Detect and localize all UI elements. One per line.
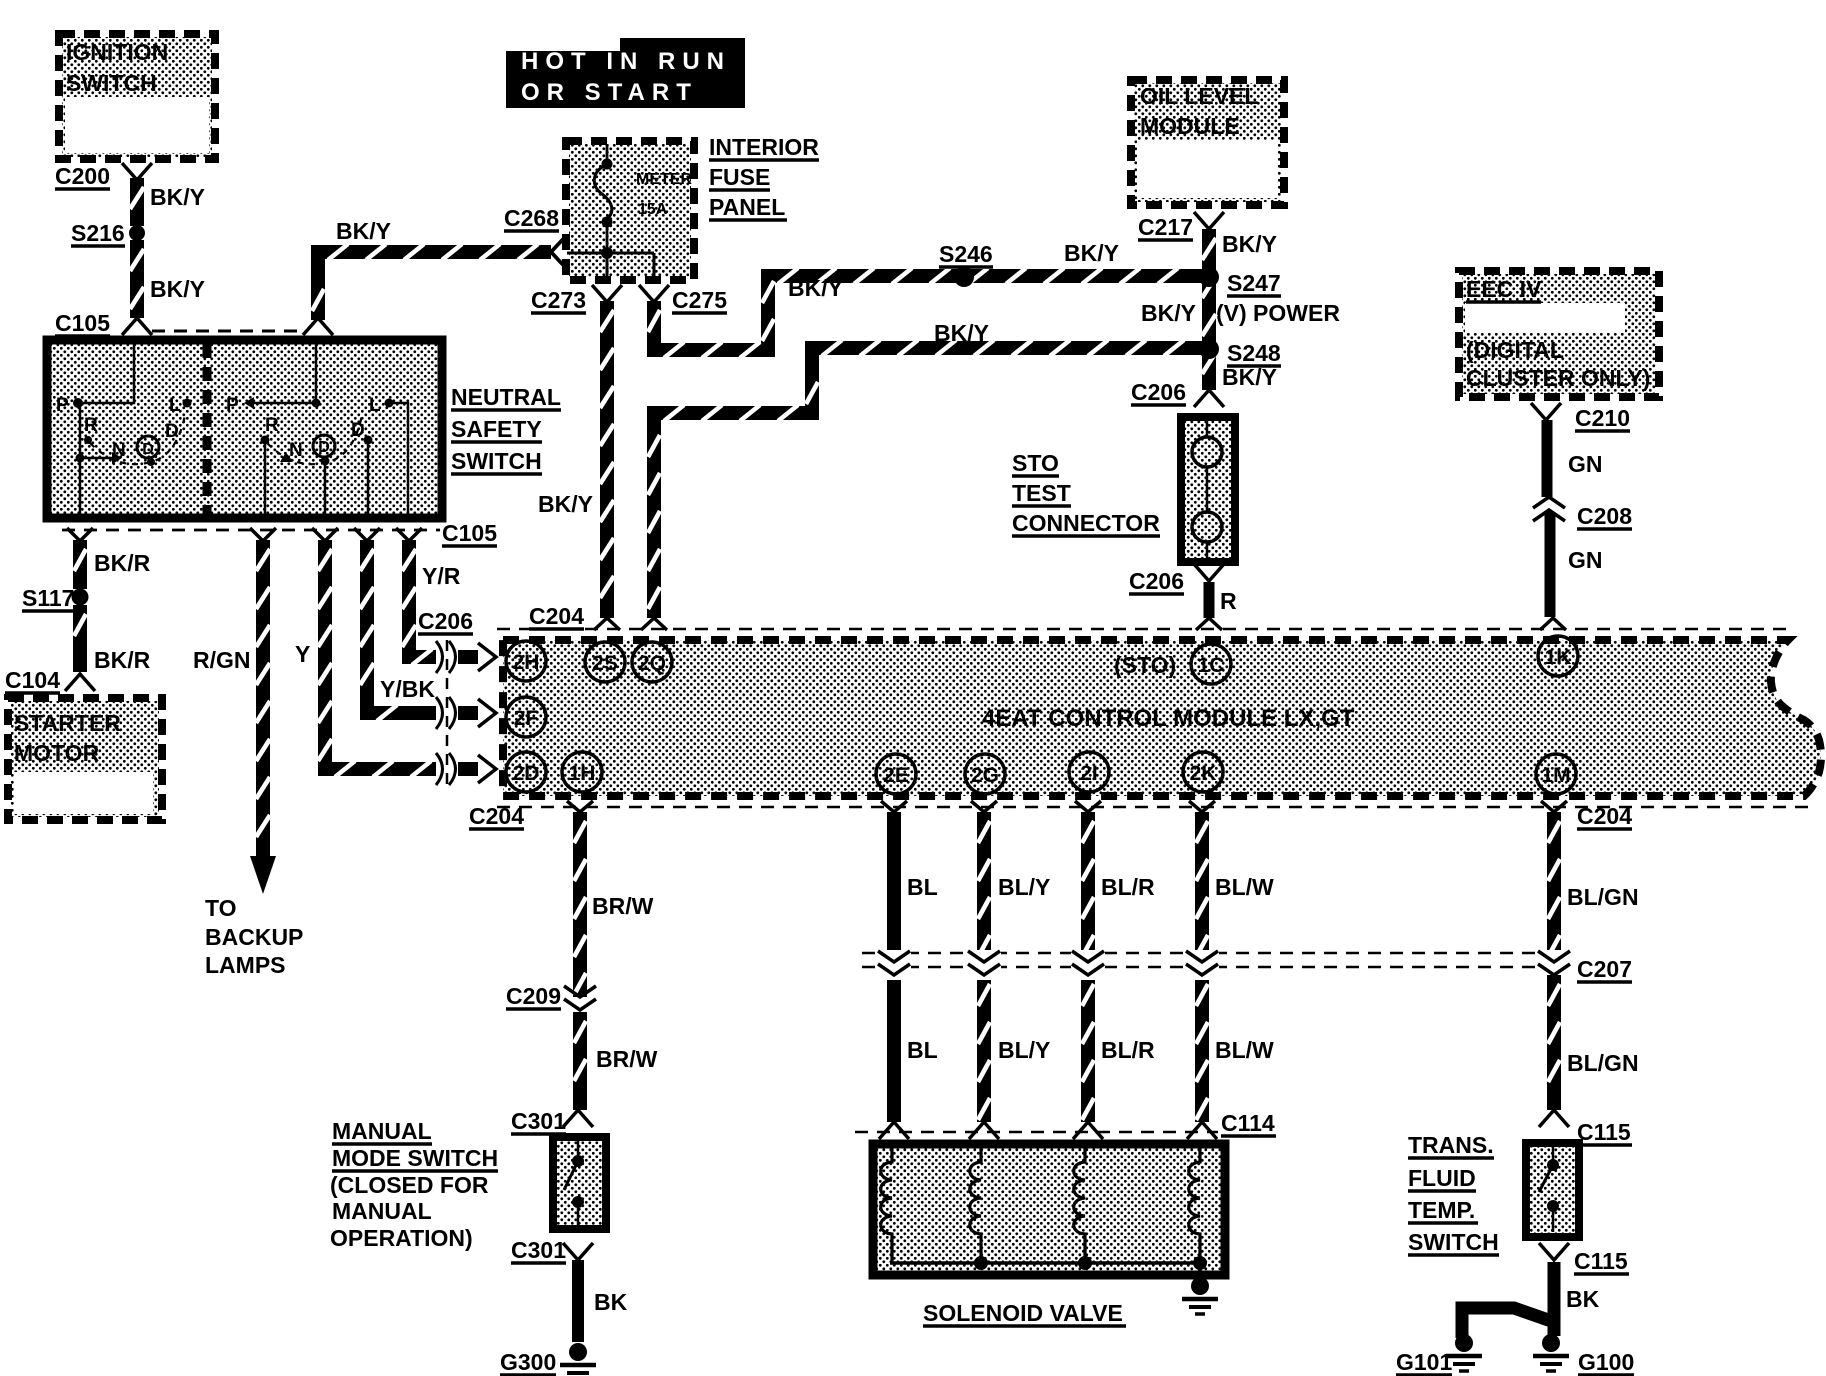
label BK/R (94, 647, 151, 673)
svg-text:BL/R: BL/R (1101, 874, 1155, 900)
neutral safety switch left contacts (56, 344, 192, 518)
module top chevron 1C (1196, 618, 1222, 630)
svg-text:MODE SWITCH: MODE SWITCH (332, 1145, 498, 1171)
splice S117 (22, 585, 89, 611)
ground G101 (1396, 1334, 1482, 1375)
connector C301 chevron (bottom) (511, 1237, 593, 1263)
svg-text:BL/W: BL/W (1215, 1037, 1274, 1063)
svg-text:CLUSTER ONLY): CLUSTER ONLY) (1466, 365, 1650, 391)
svg-text:SWITCH: SWITCH (66, 70, 157, 96)
connector C273 chevron (531, 285, 622, 313)
svg-text:C301: C301 (511, 1108, 566, 1134)
svg-text:OR START: OR START (521, 79, 698, 106)
connector C114 chevrons (879, 1122, 1217, 1139)
wire BL module 2E to solenoid (887, 812, 901, 1122)
svg-text:D: D (165, 421, 179, 442)
svg-text:C105: C105 (55, 310, 110, 336)
svg-text:1M: 1M (1541, 764, 1570, 787)
label BK/Y (150, 184, 205, 210)
svg-text:P: P (56, 395, 69, 416)
svg-text:S117: S117 (22, 585, 74, 611)
wire BK C301 to G300 (572, 1260, 584, 1342)
label BK/Y (934, 320, 989, 346)
wire BL/GN module 1M to C207 (1548, 812, 1560, 962)
wire BK/Y ignition to S216 (130, 178, 144, 226)
connector C206 chevron (top) (1131, 379, 1224, 407)
wire Y C105 to module 2D (318, 540, 478, 777)
svg-text:BL: BL (907, 874, 938, 900)
svg-text:C105: C105 (442, 520, 497, 546)
connector C115 chevron (bottom) (1539, 1243, 1629, 1274)
connector C210 chevron (1531, 403, 1630, 431)
svg-text:(CLOSED FOR: (CLOSED FOR (330, 1172, 489, 1198)
manual mode switch box (553, 1137, 606, 1229)
svg-text:Y/BK: Y/BK (380, 676, 435, 702)
neutral safety switch right contacts (226, 344, 408, 518)
svg-text:G101: G101 (1396, 1349, 1452, 1375)
wire BL/Y module 2G to solenoid (978, 812, 990, 1122)
svg-text:L: L (169, 395, 181, 416)
module bottom chevron 1M (1541, 801, 1567, 812)
wire BL/GN C207 to C115 (1548, 975, 1560, 1110)
svg-text:BK/Y: BK/Y (934, 320, 989, 346)
module left funnels (478, 643, 496, 783)
svg-text:SOLENOID VALVE: SOLENOID VALVE (923, 1300, 1123, 1326)
EEC IV digital cluster box (1459, 271, 1659, 397)
svg-text:C115: C115 (1574, 1248, 1628, 1274)
wire BL/W module 2K to solenoid (1196, 812, 1208, 1122)
neutral safety switch labels (451, 384, 561, 474)
svg-text:BR/W: BR/W (596, 1046, 658, 1072)
interior fuse panel box (566, 141, 694, 280)
label BL (907, 874, 938, 900)
connector C204 label (bottom left) (469, 803, 524, 829)
svg-text:C204: C204 (469, 803, 524, 829)
solenoid valve box (873, 1144, 1225, 1275)
svg-text:1K: 1K (1545, 646, 1572, 669)
svg-text:BK: BK (594, 1289, 628, 1315)
connector C200 chevron (122, 163, 152, 180)
solenoid coil 2 (970, 1146, 981, 1263)
splice S246 (939, 241, 993, 287)
connector C105 chevron (fuse wire) (303, 318, 333, 335)
svg-text:2S: 2S (592, 652, 618, 675)
svg-text:C207: C207 (1577, 956, 1632, 982)
svg-text:C204: C204 (529, 603, 584, 629)
svg-text:C273: C273 (531, 287, 586, 313)
svg-text:TEMP.: TEMP. (1408, 1197, 1475, 1223)
svg-text:1H: 1H (569, 762, 596, 785)
svg-text:SWITCH: SWITCH (451, 448, 542, 474)
connector C217 chevron (1138, 212, 1224, 240)
4EAT control module box (497, 629, 1821, 807)
wire BR/W C209 to C301 (574, 1012, 586, 1110)
svg-text:GN: GN (1568, 547, 1603, 573)
svg-text:C268: C268 (504, 205, 559, 231)
svg-text:MANUAL: MANUAL (332, 1118, 432, 1144)
connector C207 chevrons (1537, 950, 1632, 982)
svg-text:2D: 2D (513, 762, 540, 785)
wire BK/R S117 to C104 (74, 605, 86, 672)
connector C268 label (504, 205, 559, 231)
svg-text:C209: C209 (506, 983, 561, 1009)
module pin 1H (562, 752, 602, 792)
svg-text:1C: 1C (1198, 654, 1225, 677)
splice S248 (1199, 339, 1281, 366)
svg-text:BL/R: BL/R (1101, 1037, 1155, 1063)
connector C206 breaks (436, 640, 456, 792)
wire BL/R module 2I to solenoid (1082, 812, 1094, 1122)
label Y/R (422, 563, 461, 589)
connector C115 chevron (top) (1539, 1110, 1632, 1145)
svg-text:INTERIOR: INTERIOR (709, 134, 819, 160)
svg-text:BK/Y: BK/Y (150, 276, 205, 302)
svg-text:2K: 2K (1190, 762, 1217, 785)
svg-text:SWITCH: SWITCH (1408, 1229, 1499, 1255)
label BL/W (1215, 874, 1274, 900)
label BK/Y (1222, 231, 1277, 257)
svg-text:D: D (318, 439, 330, 456)
ignition switch box (59, 34, 215, 159)
svg-text:Y: Y (295, 641, 310, 667)
label BK/Y (788, 275, 843, 301)
splice S247 (1199, 267, 1281, 296)
module pin 2I (1069, 752, 1109, 792)
label BK/R (94, 550, 151, 576)
module top chevron 1K (1540, 618, 1566, 630)
inline connector chevrons BL (877, 950, 911, 980)
STO test connector labels (1012, 450, 1160, 536)
connector C208 double chevron (1533, 497, 1632, 529)
svg-text:SAFETY: SAFETY (451, 416, 542, 442)
label Y/BK (380, 676, 435, 702)
svg-text:BL/GN: BL/GN (1567, 884, 1639, 910)
module top chevron 2S (594, 618, 620, 630)
svg-text:BK/Y: BK/Y (1222, 364, 1277, 390)
label BK/Y (150, 276, 205, 302)
svg-text:C104: C104 (5, 667, 60, 693)
module pin 2G (965, 754, 1005, 794)
neutral safety switch box (47, 340, 442, 518)
svg-text:BL/W: BL/W (1215, 874, 1274, 900)
connector C301 chevron (top) (511, 1108, 593, 1134)
svg-text:C206: C206 (1131, 379, 1186, 405)
svg-text:R/GN: R/GN (193, 647, 251, 673)
oil level module box (1131, 80, 1284, 205)
splice S216 (71, 220, 145, 246)
solenoid coil 1 (881, 1146, 892, 1263)
svg-text:BR/W: BR/W (592, 893, 654, 919)
wire BK/Y C275 to S246/S247 run (648, 268, 1203, 358)
connector C105 chevrons below switch (67, 528, 422, 541)
wire BK/Y module 2Q to S248 run (648, 340, 1203, 618)
connector C209 double chevron (506, 983, 596, 1010)
starter motor box (8, 698, 162, 820)
label BL/Y (998, 1037, 1050, 1063)
svg-text:15A: 15A (638, 201, 668, 218)
wire R C206 to module 1C (1204, 582, 1215, 618)
wire BK/Y C273 to module 2S (600, 301, 614, 618)
module pin 2K (1183, 752, 1223, 792)
svg-text:R: R (1220, 588, 1237, 614)
solenoid ground (1182, 1277, 1218, 1314)
solenoid common bus (890, 1256, 1207, 1283)
wire GN C210 to C208 (1542, 420, 1553, 497)
svg-text:BL/Y: BL/Y (998, 1037, 1050, 1063)
svg-text:BL: BL (907, 1037, 938, 1063)
svg-text:BK: BK (1566, 1286, 1600, 1312)
label BL/Y (998, 874, 1050, 900)
connector C104 chevron (5, 667, 95, 693)
connector C105 dashed line (152, 330, 303, 333)
connector C200 label (55, 163, 110, 189)
wire BK/Y C217 to C206 (1202, 229, 1216, 390)
svg-text:2H: 2H (513, 651, 540, 674)
STO test connector box (1181, 417, 1235, 562)
svg-text:BK/R: BK/R (94, 550, 151, 576)
arrow to backup lamps (250, 856, 276, 894)
svg-text:STARTER: STARTER (14, 710, 121, 736)
svg-text:TO: TO (205, 895, 237, 921)
fuse METER 15A (567, 144, 692, 277)
inline connector chevrons BL/R (1071, 950, 1105, 980)
label SOLENOID VALVE (923, 1300, 1126, 1326)
svg-text:D: D (142, 441, 154, 458)
wire BK/Y C105 to C268 (312, 244, 551, 320)
module pin 1K (1538, 636, 1578, 676)
svg-text:C206: C206 (1129, 568, 1184, 594)
label BK/Y and (V) POWER (1141, 300, 1340, 326)
connector C105 chevron (ignition wire) (122, 318, 152, 335)
label BL/W (1215, 1037, 1274, 1063)
svg-text:STO: STO (1012, 450, 1059, 476)
ground G300 (500, 1343, 596, 1376)
svg-text:S246: S246 (939, 241, 993, 267)
module pin 2D (506, 752, 546, 792)
solenoid coil 3 (1074, 1146, 1085, 1263)
label BL/R (1101, 1037, 1155, 1063)
label BK/Y (1222, 364, 1277, 390)
svg-text:BK/Y: BK/Y (336, 218, 391, 244)
solenoid coil 4 (1189, 1146, 1200, 1263)
svg-text:MODULE: MODULE (1140, 113, 1240, 139)
svg-text:FUSE: FUSE (709, 164, 770, 190)
svg-text:IGNITION: IGNITION (66, 39, 168, 65)
connector C114 dashed line (855, 1110, 1276, 1136)
svg-text:FLUID: FLUID (1408, 1165, 1476, 1191)
label BK/Y (538, 491, 593, 517)
connector C268 chevron (551, 236, 566, 268)
svg-text:2I: 2I (1080, 762, 1098, 785)
manual mode switch labels (330, 1118, 498, 1251)
trans fluid temp switch labels (1408, 1132, 1499, 1255)
wire Y/BK C105 to module 2F (360, 540, 478, 721)
svg-text:BK/Y: BK/Y (788, 275, 843, 301)
wire BR/W module 1H to C209 (574, 812, 586, 997)
svg-text:BK/R: BK/R (94, 647, 151, 673)
module pin 2H (506, 641, 546, 681)
module pin (STO) 1C (1114, 644, 1231, 684)
label BR/W (592, 893, 654, 919)
label BL/GN (1567, 1050, 1639, 1076)
label BK (594, 1289, 628, 1315)
module bottom chevron 2G (971, 801, 997, 812)
inline connector chevrons BL/W (1185, 950, 1219, 980)
svg-text:C206: C206 (418, 608, 473, 634)
svg-text:TEST: TEST (1012, 480, 1071, 506)
svg-text:C208: C208 (1577, 503, 1632, 529)
svg-text:METER: METER (636, 171, 692, 188)
svg-text:R: R (84, 415, 98, 436)
svg-text:C114: C114 (1221, 1110, 1275, 1136)
svg-text:BACKUP: BACKUP (205, 924, 303, 950)
svg-text:MOTOR: MOTOR (14, 740, 100, 766)
svg-text:2Q: 2Q (638, 652, 666, 675)
svg-text:BK/Y: BK/Y (1141, 300, 1196, 326)
svg-text:D: D (351, 420, 365, 441)
label BL/R (1101, 874, 1155, 900)
label GN (1568, 451, 1603, 477)
svg-text:(STO): (STO) (1114, 652, 1176, 678)
svg-text:R: R (265, 415, 279, 436)
svg-text:LAMPS: LAMPS (205, 952, 286, 978)
label R/GN (193, 647, 251, 673)
svg-text:C210: C210 (1575, 405, 1630, 431)
module pin 2S (585, 642, 625, 682)
svg-text:2G: 2G (971, 764, 999, 787)
label BL/GN (1567, 884, 1639, 910)
connector C206 label (left) (418, 608, 473, 634)
label BK/Y (336, 218, 391, 244)
svg-text:2E: 2E (883, 764, 909, 787)
ground G100 (1533, 1334, 1634, 1375)
module pin 2Q (632, 642, 672, 682)
module pin 1M (1536, 754, 1576, 794)
svg-text:OPERATION): OPERATION) (330, 1225, 473, 1251)
svg-text:BK/Y: BK/Y (538, 491, 593, 517)
svg-text:C115: C115 (1577, 1119, 1631, 1145)
svg-text:TRANS.: TRANS. (1408, 1132, 1494, 1158)
svg-text:CONNECTOR: CONNECTOR (1012, 510, 1160, 536)
svg-text:MANUAL: MANUAL (332, 1198, 432, 1224)
wire BK/R C105 to S117 (74, 540, 86, 589)
label GN (1568, 547, 1603, 573)
label BK/Y (1064, 240, 1119, 266)
wire Y/R C105 to module 2H (402, 540, 478, 665)
svg-text:L: L (369, 395, 381, 416)
module pin 2E (876, 754, 916, 794)
svg-text:G100: G100 (1578, 1349, 1634, 1375)
svg-text:C217: C217 (1138, 214, 1193, 240)
connector C204 label (bottom right) (1577, 803, 1632, 829)
svg-text:C200: C200 (55, 163, 110, 189)
inline connector dashed lines (solenoid row) (862, 953, 1545, 967)
trans fluid temp switch box (1526, 1143, 1579, 1237)
module pin 2F (506, 697, 546, 737)
svg-text:Y/R: Y/R (422, 563, 461, 589)
svg-text:BK/Y: BK/Y (150, 184, 205, 210)
wire GN C208 to module 1K (1545, 512, 1556, 617)
module bottom chevron 2K (1189, 801, 1215, 812)
svg-text:EEC IV: EEC IV (1466, 276, 1542, 302)
svg-text:C204: C204 (1577, 803, 1632, 829)
svg-text:NEUTRAL: NEUTRAL (451, 384, 561, 410)
svg-text:GN: GN (1568, 451, 1603, 477)
wire BK C115 to grounds (1462, 1262, 1554, 1338)
svg-text:C275: C275 (672, 287, 727, 313)
svg-text:N: N (289, 440, 303, 461)
svg-text:P: P (226, 395, 239, 416)
svg-text:(V) POWER: (V) POWER (1216, 300, 1340, 326)
connector C275 chevron (639, 285, 727, 313)
connector C204 label (top) (529, 603, 584, 629)
svg-text:2F: 2F (514, 707, 539, 730)
label BL (907, 1037, 938, 1063)
label BK (1566, 1286, 1600, 1312)
inline connector chevrons BL/Y (967, 950, 1001, 980)
svg-text:G300: G300 (500, 1349, 556, 1375)
svg-text:4EAT CONTROL MODULE LX,GT: 4EAT CONTROL MODULE LX,GT (982, 705, 1355, 732)
wire R/GN to backup lamps (256, 540, 270, 856)
svg-text:(DIGITAL: (DIGITAL (1466, 337, 1564, 363)
svg-text:BL/Y: BL/Y (998, 874, 1050, 900)
wire BK/Y S216 to C105 (130, 240, 144, 318)
hot in run or start banner (506, 38, 745, 108)
svg-text:BK/Y: BK/Y (1222, 231, 1277, 257)
svg-text:S216: S216 (71, 220, 125, 246)
svg-text:HOT IN RUN: HOT IN RUN (521, 48, 731, 75)
module bottom chevron 2I (1075, 801, 1101, 812)
svg-text:BL/GN: BL/GN (1567, 1050, 1639, 1076)
label Y (295, 641, 310, 667)
label BR/W (596, 1046, 658, 1072)
label R (1220, 588, 1237, 614)
connector C105 label (55, 310, 110, 336)
module bottom chevron 1H (567, 801, 593, 812)
svg-text:S248: S248 (1227, 340, 1281, 366)
module top chevron 2Q (641, 618, 667, 630)
svg-text:C301: C301 (511, 1237, 566, 1263)
svg-text:N: N (112, 440, 126, 461)
svg-text:PANEL: PANEL (709, 194, 785, 220)
module bottom chevron 2E (881, 801, 907, 812)
interior fuse panel labels (709, 134, 819, 220)
svg-text:BK/Y: BK/Y (1064, 240, 1119, 266)
svg-text:OIL LEVEL: OIL LEVEL (1140, 83, 1258, 109)
label TO BACKUP LAMPS (205, 895, 303, 978)
connector C206 chevron (bottom) (1129, 564, 1224, 594)
connector C105 dashed line (below switch) (62, 520, 497, 546)
svg-text:S247: S247 (1227, 270, 1281, 296)
